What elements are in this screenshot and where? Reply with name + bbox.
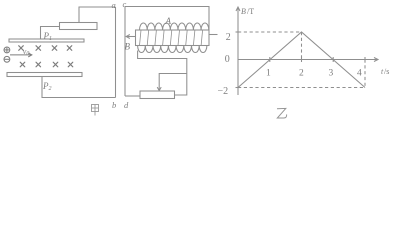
B field arrow xyxy=(126,35,135,39)
positive particle symbol xyxy=(4,47,10,53)
svg-text:1: 1 xyxy=(266,69,271,79)
svg-text:/T: /T xyxy=(247,7,254,16)
svg-text:a: a xyxy=(112,0,116,10)
svg-text:b: b xyxy=(112,100,116,110)
field cross row1 xyxy=(19,46,72,51)
dashed guide t=4 xyxy=(364,60,366,88)
wire top from c to coil xyxy=(125,7,209,31)
svg-text:3: 3 xyxy=(329,69,334,79)
wire from P2 down to node b xyxy=(42,77,116,98)
plate P2 xyxy=(7,73,82,77)
label jia (Chinese) drawn as path xyxy=(92,105,99,116)
svg-text:/s: /s xyxy=(384,67,389,76)
label yi (Chinese) drawn as path xyxy=(277,108,287,118)
y tick at 2 xyxy=(236,31,241,33)
solenoid top loops xyxy=(140,23,209,30)
graph x axis xyxy=(238,58,378,62)
x ticks 1..4 xyxy=(269,57,271,62)
svg-text:B: B xyxy=(241,7,246,16)
rheostat slider arrow xyxy=(157,74,187,91)
coil right stub xyxy=(209,34,218,36)
wire ab vertical xyxy=(115,7,117,98)
dashed guide at B=2 xyxy=(238,31,302,33)
velocity v0 arrow xyxy=(10,53,32,57)
svg-text:2: 2 xyxy=(226,32,231,43)
solenoid A body xyxy=(136,30,210,46)
rheostat box xyxy=(140,91,175,99)
svg-text:d: d xyxy=(124,100,129,110)
B(t) waveform xyxy=(238,32,365,88)
graph y axis xyxy=(236,7,240,95)
svg-text:4: 4 xyxy=(357,69,362,79)
svg-text:P2: P2 xyxy=(42,81,52,92)
solenoid bottom loops xyxy=(138,46,207,53)
dashed guide t=2 xyxy=(301,32,303,60)
resistor R box (top left circuit) xyxy=(60,23,98,30)
wire from d to rheostat left xyxy=(125,95,140,97)
svg-text:0: 0 xyxy=(225,54,230,65)
dashed guide at B=-2 xyxy=(238,87,365,89)
wire from resistor top to node a xyxy=(79,7,116,23)
svg-text:B: B xyxy=(125,42,131,52)
plate P1 xyxy=(9,39,84,42)
svg-text:A: A xyxy=(165,16,172,26)
svg-text:v0: v0 xyxy=(23,47,30,57)
svg-text:2: 2 xyxy=(299,69,304,79)
svg-text:−2: −2 xyxy=(218,86,229,97)
wire from resistor left to plate P1 xyxy=(41,27,60,40)
svg-text:P1: P1 xyxy=(43,31,53,42)
solenoid winding strokes xyxy=(140,30,203,46)
y tick at -2 xyxy=(236,87,241,89)
field cross row2 xyxy=(20,62,73,67)
negative particle symbol xyxy=(4,56,10,62)
wire cd vertical xyxy=(124,7,126,97)
wire from coil left down around to rheostat right xyxy=(138,51,187,96)
